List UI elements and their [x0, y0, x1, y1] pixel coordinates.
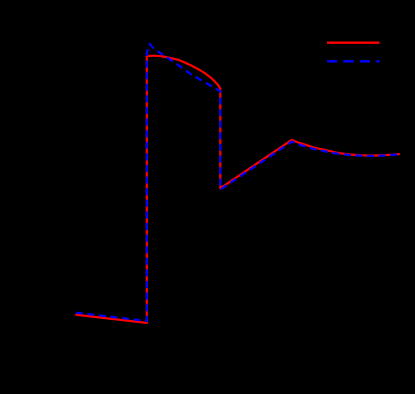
legend blue dashed line sample	[327, 60, 380, 62]
legend red solid line sample	[327, 42, 380, 44]
blue dashed curve	[75, 44, 398, 321]
red solid curve	[75, 56, 400, 323]
